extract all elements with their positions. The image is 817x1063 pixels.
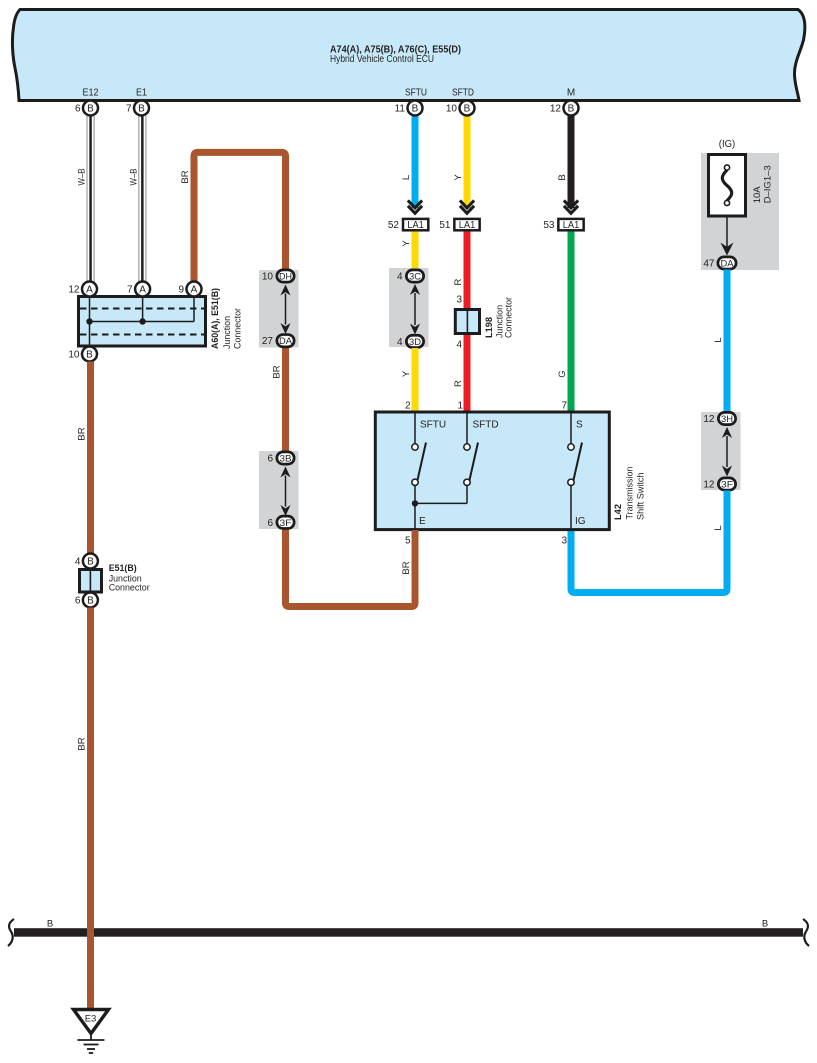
pin circle 11 B (SFTU) bbox=[395, 101, 423, 116]
wire B (black) from M pin 12 to LA1 53 bbox=[557, 114, 575, 208]
junction connector E51(B) bbox=[80, 563, 150, 594]
svg-text:DA: DA bbox=[279, 336, 293, 347]
oval DH pin 10 bbox=[262, 270, 294, 283]
svg-text:W–B: W–B bbox=[128, 169, 139, 186]
svg-text:IG: IG bbox=[575, 516, 586, 527]
svg-text:Y: Y bbox=[401, 370, 412, 377]
wire BR from switch E pin 5 down and left to 3F bbox=[286, 530, 416, 607]
connector LA1 (53) bbox=[543, 219, 583, 231]
svg-text:L: L bbox=[713, 337, 724, 342]
oval 3F pin 6 (left) bbox=[267, 516, 294, 529]
pin circle 12 A bbox=[68, 282, 97, 297]
svg-text:Connector: Connector bbox=[233, 308, 244, 349]
ground E3 bbox=[74, 1010, 109, 1054]
svg-text:A: A bbox=[139, 285, 146, 296]
svg-text:LA1: LA1 bbox=[459, 220, 476, 231]
svg-text:27: 27 bbox=[262, 336, 274, 347]
svg-text:3H: 3H bbox=[721, 414, 733, 425]
svg-text:52: 52 bbox=[388, 220, 400, 231]
svg-text:BR: BR bbox=[401, 561, 412, 574]
svg-text:B: B bbox=[87, 104, 94, 115]
svg-text:B: B bbox=[87, 596, 94, 607]
svg-text:BR: BR bbox=[272, 365, 283, 378]
svg-text:LA1: LA1 bbox=[407, 220, 424, 231]
svg-text:12: 12 bbox=[703, 414, 715, 425]
svg-text:51: 51 bbox=[439, 220, 451, 231]
svg-text:B: B bbox=[762, 919, 768, 930]
pin circle 7 B (E1) bbox=[126, 101, 149, 116]
ECU band A74/A75/A76/E55 bbox=[12, 10, 804, 101]
svg-text:4: 4 bbox=[456, 340, 462, 351]
svg-text:G: G bbox=[557, 370, 568, 377]
svg-text:10: 10 bbox=[262, 272, 274, 283]
svg-text:B: B bbox=[47, 919, 53, 930]
svg-text:A: A bbox=[86, 285, 93, 296]
svg-text:E12: E12 bbox=[83, 88, 99, 99]
svg-text:L198: L198 bbox=[484, 317, 495, 338]
svg-text:Shift Switch: Shift Switch bbox=[636, 473, 647, 521]
oval DA pin 47 bbox=[703, 257, 736, 270]
svg-text:W–B: W–B bbox=[77, 169, 88, 186]
svg-text:BR: BR bbox=[77, 427, 88, 440]
pin circle 7 A bbox=[127, 282, 150, 297]
svg-text:M: M bbox=[567, 88, 575, 99]
fuse 10A D-IG1-3 bbox=[709, 155, 774, 217]
switch S contact bbox=[568, 412, 582, 530]
chevron arrows into LA1 52 bbox=[408, 200, 422, 213]
mating arrows between DH and DA bbox=[280, 285, 290, 335]
wire BR from A60 10B to E51 4B bbox=[77, 362, 95, 555]
mating arrows between 3C and 3D bbox=[410, 284, 420, 335]
svg-text:Hybrid Vehicle Control ECU: Hybrid Vehicle Control ECU bbox=[330, 54, 434, 65]
wire L (blue) from DA to 3H bbox=[713, 270, 731, 412]
wire Y (yellow) from SFTD pin 10 to LA1 51 bbox=[453, 114, 471, 208]
svg-text:E: E bbox=[419, 516, 426, 527]
svg-text:3F: 3F bbox=[721, 480, 733, 491]
svg-text:A: A bbox=[191, 285, 198, 296]
switch box L42 Transmission Shift Switch bbox=[375, 412, 646, 530]
oval 3B pin 6 bbox=[267, 452, 294, 465]
wire R (red) from LA1 51 to switch pin 1 bbox=[453, 232, 471, 413]
svg-text:4: 4 bbox=[397, 337, 403, 348]
svg-text:BR: BR bbox=[77, 737, 88, 750]
pin circle 12 B (M) bbox=[550, 101, 579, 116]
pin circle 4 B bbox=[75, 554, 98, 569]
svg-text:5: 5 bbox=[405, 536, 411, 547]
fuse block gray background bbox=[701, 153, 779, 270]
svg-text:L: L bbox=[401, 175, 412, 180]
svg-text:6: 6 bbox=[75, 104, 81, 115]
svg-text:DA: DA bbox=[721, 259, 735, 270]
oval 3D pin 4 bbox=[397, 335, 424, 348]
svg-text:Connector: Connector bbox=[109, 583, 150, 594]
svg-text:1: 1 bbox=[457, 401, 463, 412]
connector pair 3H/3F gray block bbox=[701, 412, 741, 490]
svg-text:(IG): (IG) bbox=[719, 139, 736, 150]
wire Y (yellow) from 3D to switch pin 2 bbox=[401, 348, 419, 412]
svg-text:10: 10 bbox=[446, 104, 458, 115]
svg-text:D–IG1–3: D–IG1–3 bbox=[763, 165, 774, 203]
oval DA pin 27 bbox=[262, 335, 294, 348]
connector LA1 (51) bbox=[439, 219, 479, 231]
svg-text:Junction: Junction bbox=[222, 316, 233, 349]
pin circle 6 B (E51 bottom) bbox=[75, 593, 98, 608]
svg-text:2: 2 bbox=[405, 401, 411, 412]
wire W-B from E12 pin 6 bbox=[77, 116, 95, 282]
svg-text:B: B bbox=[87, 557, 94, 568]
ECU title bbox=[330, 45, 461, 66]
svg-text:3: 3 bbox=[561, 536, 567, 547]
svg-text:R: R bbox=[453, 278, 464, 285]
svg-text:10A: 10A bbox=[752, 186, 763, 204]
oval 3C pin 4 bbox=[397, 270, 424, 283]
junction connector L198 bbox=[455, 297, 514, 338]
wire L (blue) from SFTU pin 11 to LA1 bbox=[401, 114, 419, 208]
wire Y (yellow) from LA1 52 down to 3C bbox=[401, 232, 419, 269]
connector pair 3B/3F gray block bbox=[259, 451, 299, 529]
svg-text:47: 47 bbox=[703, 259, 715, 270]
svg-text:L: L bbox=[713, 525, 724, 530]
svg-text:12: 12 bbox=[68, 285, 80, 296]
svg-text:6: 6 bbox=[267, 454, 273, 465]
svg-text:Transmission: Transmission bbox=[625, 467, 636, 520]
oval 3F pin 12 (right) bbox=[703, 478, 735, 491]
svg-text:7: 7 bbox=[127, 285, 133, 296]
svg-text:BR: BR bbox=[180, 170, 191, 183]
svg-text:9: 9 bbox=[178, 285, 184, 296]
svg-text:SFTU: SFTU bbox=[405, 88, 427, 99]
junction dot inside switch bbox=[412, 500, 418, 506]
wire BR from A60 pin 9 up and over to DH bbox=[180, 152, 286, 284]
svg-text:3F: 3F bbox=[280, 518, 292, 529]
brown wire over bus bbox=[87, 926, 94, 938]
mating arrows between 3H and 3F bbox=[722, 427, 732, 477]
svg-text:B: B bbox=[86, 350, 93, 361]
svg-text:3: 3 bbox=[456, 295, 462, 306]
connector pair 3C/3D gray block bbox=[389, 268, 429, 347]
switch SFTD contact bbox=[415, 412, 478, 503]
svg-text:B: B bbox=[464, 104, 471, 115]
svg-text:L42: L42 bbox=[613, 504, 624, 520]
oval 3H pin 12 bbox=[703, 412, 735, 425]
mating arrows between 3B and 3F bbox=[280, 467, 290, 517]
svg-text:4: 4 bbox=[75, 557, 81, 568]
connector pair DH/DA gray block bbox=[259, 270, 299, 348]
svg-text:SFTD: SFTD bbox=[473, 420, 499, 431]
pin circle 10 B (A60 bottom) bbox=[68, 347, 97, 362]
wire L (blue) from 3F down left to switch IG pin 3 bbox=[561, 491, 727, 593]
chevron arrows into LA1 51 bbox=[460, 200, 474, 213]
svg-text:12: 12 bbox=[550, 104, 562, 115]
pin circle 10 B (SFTD) bbox=[446, 101, 475, 116]
chevron arrows into LA1 53 bbox=[564, 200, 578, 213]
svg-text:11: 11 bbox=[395, 104, 406, 115]
svg-text:53: 53 bbox=[543, 220, 555, 231]
svg-text:3B: 3B bbox=[280, 454, 292, 465]
svg-text:LA1: LA1 bbox=[563, 220, 580, 231]
svg-text:S: S bbox=[576, 420, 583, 431]
svg-text:4: 4 bbox=[397, 272, 403, 283]
svg-text:3D: 3D bbox=[409, 337, 421, 348]
svg-text:DH: DH bbox=[279, 272, 292, 283]
ground bus B bbox=[8, 919, 809, 947]
connector LA1 (52) bbox=[388, 219, 428, 231]
svg-text:7: 7 bbox=[126, 104, 132, 115]
svg-text:Y: Y bbox=[401, 240, 412, 247]
wire W-B from E1 pin 7 bbox=[128, 116, 146, 282]
svg-text:E3: E3 bbox=[85, 1014, 97, 1025]
svg-text:3C: 3C bbox=[409, 272, 421, 283]
svg-text:R: R bbox=[453, 380, 464, 387]
wire from fuse to DA with arrow bbox=[721, 216, 734, 256]
svg-text:B: B bbox=[557, 174, 568, 180]
svg-text:A60(A), E51(B): A60(A), E51(B) bbox=[210, 288, 221, 349]
junction connector A60(A) E51(B) bbox=[79, 288, 244, 349]
svg-text:6: 6 bbox=[267, 518, 273, 529]
svg-text:B: B bbox=[568, 104, 575, 115]
wire BR from DA down to 3B bbox=[272, 347, 290, 452]
svg-text:10: 10 bbox=[68, 350, 80, 361]
svg-text:Connector: Connector bbox=[504, 297, 515, 338]
svg-text:SFTD: SFTD bbox=[452, 88, 474, 99]
svg-text:6: 6 bbox=[75, 596, 81, 607]
svg-text:12: 12 bbox=[703, 480, 715, 491]
wire BR from E51 6B down to ground bbox=[77, 608, 95, 1010]
svg-text:B: B bbox=[412, 104, 419, 115]
wire G (green) from LA1 53 to switch pin 7 bbox=[557, 232, 575, 413]
pin circle 9 A bbox=[178, 282, 201, 297]
svg-text:SFTU: SFTU bbox=[420, 420, 446, 431]
svg-text:Y: Y bbox=[453, 174, 464, 181]
svg-text:7: 7 bbox=[561, 401, 567, 412]
svg-text:B: B bbox=[138, 104, 145, 115]
svg-text:E1: E1 bbox=[136, 88, 147, 99]
switch SFTU contact bbox=[412, 412, 426, 530]
pin circle 6 B (E12) bbox=[75, 101, 98, 116]
